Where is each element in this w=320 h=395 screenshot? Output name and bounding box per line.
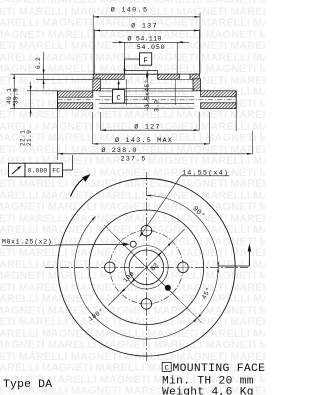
- dimension 22.1/21.9: [19, 82, 57, 146]
- bolt circle (dash-dot): [110, 231, 183, 304]
- dimension 100 (bolt circle): [121, 289, 126, 294]
- svg-text:237.5: 237.5: [121, 155, 147, 163]
- svg-text:Ø 137: Ø 137: [131, 21, 158, 30]
- datum C frame: [113, 80, 125, 104]
- flange hatched right: [190, 74, 199, 79]
- bolt hole gap right: [180, 74, 190, 79]
- center boss top face: [124, 70, 157, 72]
- svg-text:FC: FC: [52, 168, 60, 175]
- bore far walls: [126, 79, 128, 105]
- svg-text:Ø 54.110: Ø 54.110: [127, 35, 161, 44]
- bowl interior far edges: [99, 88, 194, 90]
- dimension 40.1/39.9: [6, 74, 57, 109]
- rotation direction arrow: [71, 177, 87, 197]
- runout feature control frame 0.080 FC: [9, 155, 73, 177]
- wheel bolt holes Ø14.55 x4: [139, 223, 154, 238]
- svg-text:F: F: [143, 57, 148, 65]
- legend: C MOUNTING FACE: [162, 362, 265, 374]
- svg-text:6.2: 6.2: [35, 57, 42, 69]
- band top plate right (hatched): [201, 91, 237, 97]
- outer circle Ø238: [58, 178, 236, 356]
- svg-text:Ø 143.5 MAX: Ø 143.5 MAX: [115, 136, 173, 145]
- band bottom plate right (hatched): [201, 103, 237, 109]
- svg-text:62: 62: [149, 262, 160, 273]
- chamfer circle Ø62: [125, 245, 169, 289]
- diagonal centerline NE-SW: [108, 229, 184, 305]
- flange hatched mid-right: [158, 74, 180, 79]
- band top plate left (hatched): [58, 91, 93, 97]
- center hole Ø54: [129, 250, 164, 285]
- svg-text:Ø 127: Ø 127: [134, 122, 160, 131]
- svg-text:3.5x45°: 3.5x45°: [143, 79, 151, 108]
- svg-text:Ø 140.5: Ø 140.5: [111, 5, 149, 14]
- angular dimension arc (90/45/180 deg): [75, 196, 219, 340]
- svg-text:21.9: 21.9: [26, 130, 33, 146]
- band vent gap left: [57, 91, 59, 109]
- svg-text:90°: 90°: [190, 204, 206, 220]
- svg-text:0.080: 0.080: [28, 168, 48, 175]
- dimension 62: [131, 279, 136, 284]
- svg-text:Ø 238.0: Ø 238.0: [101, 146, 137, 155]
- svg-text:39.9: 39.9: [13, 88, 20, 104]
- dimension Ø143.5 MAX: [92, 112, 209, 145]
- radial extension through SE M8: [170, 291, 203, 324]
- front view centerlines: [45, 172, 248, 362]
- band bottom plate left (hatched): [58, 103, 93, 109]
- flange top face (mounting face): [93, 73, 200, 75]
- M8x1.25 hole NW: [130, 241, 136, 247]
- chamfer note 3.5x45 / 3.0: [143, 71, 160, 112]
- M8x1.25 hole SE (dark): [165, 285, 170, 290]
- svg-text:Type DA: Type DA: [3, 379, 52, 391]
- dimension Ø127: [101, 112, 200, 131]
- svg-text:54.050: 54.050: [137, 44, 166, 52]
- svg-text:3.0: 3.0: [153, 100, 160, 112]
- svg-text:C: C: [116, 95, 121, 103]
- flange hatched section left: [93, 74, 124, 79]
- diagonal centerline NW-SE: [115, 235, 179, 299]
- svg-text:Weight 4,6 Kg: Weight 4,6 Kg: [162, 386, 254, 395]
- band outer edge right: [235, 91, 237, 109]
- svg-text:100: 100: [122, 270, 136, 284]
- svg-text:MOUNTING FACE: MOUNTING FACE: [173, 363, 266, 375]
- skirt right hatched: [193, 79, 201, 91]
- svg-text:180°: 180°: [87, 307, 105, 323]
- svg-text:C: C: [164, 365, 169, 373]
- vent centerline: [58, 99, 237, 101]
- label M8x1.25(x2) with leader: [2, 238, 130, 246]
- dimension 6.2: [10, 52, 93, 89]
- dimension Ø137: [95, 21, 200, 74]
- svg-text:M8x1.25(x2): M8x1.25(x2): [2, 238, 52, 245]
- section view: brake disc cross-section: [58, 71, 237, 109]
- band inner circle: [89, 210, 204, 325]
- svg-text:45°: 45°: [200, 286, 213, 301]
- dimension Ø54.110/54.050: [113, 35, 190, 75]
- dimension Ø238.0/237.5: [58, 109, 253, 164]
- 45 deg dimension leader with up arrow: [218, 244, 251, 267]
- skirt left hatched: [93, 79, 101, 91]
- datum F frame: [124, 53, 152, 74]
- dimension Ø140.5: [93, 5, 200, 74]
- svg-text:14.55(x4): 14.55(x4): [182, 169, 229, 177]
- label 14.55(x4) with leader: [139, 169, 229, 237]
- radial extension through NW M8: [104, 225, 123, 244]
